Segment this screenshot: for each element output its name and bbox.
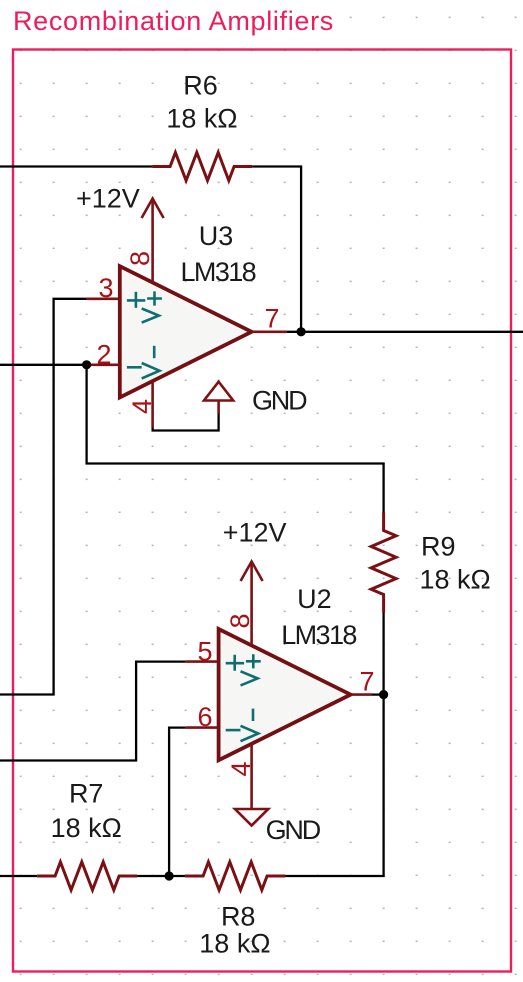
svg-text:R7: R7 <box>69 779 104 809</box>
U3 - input marks <box>127 346 160 379</box>
wire: R6 right to output junction <box>252 167 301 332</box>
wire: U2 output stub to junction <box>372 693 384 695</box>
svg-text:LM318: LM318 <box>281 620 356 650</box>
junction at U3 output <box>297 327 306 336</box>
svg-text:8: 8 <box>125 251 155 266</box>
junction at U2 output <box>379 690 388 699</box>
svg-text:GND: GND <box>266 815 321 845</box>
U3 pin 7 stub <box>252 330 287 333</box>
junction at bottom wire <box>165 871 174 880</box>
svg-text:R9: R9 <box>421 532 456 562</box>
svg-text:4: 4 <box>127 399 157 414</box>
wire: R9 bottom to U2 output junction <box>382 613 384 695</box>
U3 + input marks <box>127 291 162 322</box>
U2 pin 5 stub <box>186 660 219 663</box>
resistor R6 <box>152 153 252 181</box>
U3 pin 8 stub <box>151 249 154 283</box>
svg-text:Recombination Amplifiers: Recombination Amplifiers <box>13 6 334 36</box>
wire: left edge to R7 <box>0 875 37 877</box>
wire: bottom junction up to U2 pin 6 <box>169 728 186 876</box>
U3 pin 3 stub <box>87 297 120 300</box>
U2 pin 7 stub <box>351 693 372 696</box>
power +12V symbol at U3 pin 8 <box>142 199 164 249</box>
svg-text:+12V: +12V <box>76 183 140 213</box>
svg-text:5: 5 <box>197 637 212 667</box>
U2 pin 6 stub <box>186 726 219 729</box>
ground symbol at U3 pin 4 <box>204 382 233 414</box>
resistor R9 <box>371 513 396 613</box>
wire: R7 to bottom junction to R8 <box>137 875 185 877</box>
svg-text:R8: R8 <box>221 902 256 932</box>
wire: pin2 node down and right to R9 top <box>87 365 384 513</box>
wire: left edge up to U3 pin 3 <box>0 299 87 695</box>
svg-text:18 kΩ: 18 kΩ <box>166 104 237 134</box>
wire: U3 pin 4 to GND jog <box>153 414 219 431</box>
ground symbol at U2 pin 4 <box>235 809 268 826</box>
svg-text:+12V: +12V <box>223 518 287 548</box>
U2 pin 8 stub <box>250 612 253 646</box>
svg-text:18 kΩ: 18 kΩ <box>199 929 270 959</box>
svg-text:U2: U2 <box>297 584 332 614</box>
op-amp U2 body <box>186 612 372 810</box>
svg-text:6: 6 <box>197 702 212 732</box>
resistor R7 <box>37 862 137 890</box>
svg-text:4: 4 <box>226 761 256 776</box>
wire: junction down to bottom wire and left to R8 <box>285 695 384 876</box>
power +12V symbol at U2 pin 8 <box>241 562 263 612</box>
svg-text:U3: U3 <box>199 221 234 251</box>
svg-text:7: 7 <box>265 304 280 334</box>
svg-text:7: 7 <box>360 667 375 697</box>
U3 pin 4 stub <box>151 382 154 427</box>
svg-text:R6: R6 <box>183 70 218 100</box>
op-amp U3 body <box>87 249 287 428</box>
svg-text:LM318: LM318 <box>181 257 256 287</box>
resistor R8 <box>185 862 285 890</box>
U2 - input marks <box>226 709 259 742</box>
wire: left input to R6 <box>0 165 152 167</box>
U2 + input marks <box>226 654 261 685</box>
svg-text:18 kΩ: 18 kΩ <box>420 565 491 595</box>
svg-text:2: 2 <box>96 340 111 370</box>
wire: U3 output to right edge <box>287 331 523 333</box>
U2 pin 4 stub <box>250 745 253 809</box>
wire: left edge to U2 pin 5 <box>0 662 186 761</box>
junction at U3 pin 2 <box>82 360 91 369</box>
svg-text:GND: GND <box>252 385 307 415</box>
svg-text:18 kΩ: 18 kΩ <box>51 813 122 843</box>
svg-text:8: 8 <box>225 613 255 628</box>
wire: left input to U3 pin 2 <box>0 364 87 366</box>
U3 pin 2 stub <box>87 363 120 366</box>
svg-text:3: 3 <box>98 273 113 303</box>
